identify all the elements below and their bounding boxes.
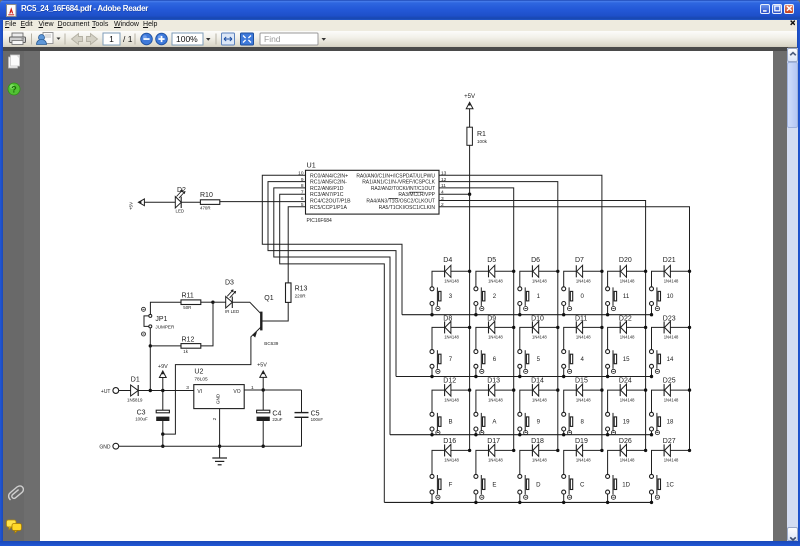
node switch 7/row junction: [430, 375, 433, 378]
wire matrix row 2 bus: [396, 376, 652, 378]
svg-text:1N4148: 1N4148: [532, 397, 547, 402]
diode D21 1N4148: [663, 257, 679, 283]
wire D6 cathode to switch: [520, 271, 533, 287]
svg-text:100k: 100k: [477, 139, 488, 144]
wire switch 11 to row bus: [607, 306, 609, 315]
wire node to D1 node (down): [149, 346, 151, 390]
switch S15 (key 15): [606, 350, 630, 374]
svg-text:4: 4: [581, 356, 585, 363]
node switch A/row junction: [474, 433, 477, 436]
node switch E/row junction: [474, 501, 477, 504]
wire R11 to D3 node: [201, 301, 213, 303]
wire C3 node to GND rail: [162, 434, 164, 446]
wire switch 15 to row bus: [607, 368, 609, 376]
node C3/emitter/GND: [161, 432, 164, 435]
svg-text:+UT: +UT: [101, 389, 111, 395]
wire D5 anode to column: [495, 270, 514, 272]
switch SF (key F): [430, 474, 453, 499]
node switch C/row junction: [562, 501, 565, 504]
wire D16 anode to column: [451, 449, 470, 451]
svg-text:IR LED: IR LED: [225, 309, 239, 314]
svg-text:BC639: BC639: [264, 341, 278, 346]
diode D15 1N4148: [575, 377, 591, 402]
wire switch 0 to row bus: [563, 306, 565, 315]
toolbar: [3, 31, 797, 47]
wire D11 cathode to switch: [564, 327, 577, 349]
svg-text:+9V: +9V: [158, 364, 168, 370]
fit width icon: [222, 33, 235, 45]
svg-text:+5V: +5V: [464, 93, 476, 100]
switch SB (key B): [430, 412, 453, 434]
wire D20 cathode to switch: [608, 271, 621, 287]
wire D9 cathode to switch: [476, 327, 489, 349]
switch S7 (key 7): [430, 350, 453, 374]
node D17/column junction: [512, 449, 515, 452]
wire switch 6 to row bus: [475, 368, 477, 376]
node GND rail/C3: [161, 445, 164, 448]
switch S1 (key 1): [518, 287, 541, 311]
svg-text:F: F: [449, 481, 453, 488]
switch S5 (key 5): [518, 350, 541, 374]
U1 right pin numbers: [441, 171, 447, 209]
svg-text:Find: Find: [264, 34, 281, 44]
wire +5V to R1: [469, 109, 471, 127]
svg-text:9: 9: [537, 418, 541, 425]
svg-text:15: 15: [623, 356, 630, 363]
svg-text:D13: D13: [487, 377, 500, 384]
wire U1 pin 11 to column 2: [439, 188, 514, 451]
page number box: [103, 33, 120, 45]
svg-text:1N4148: 1N4148: [576, 335, 591, 340]
node switch 1/row junction: [518, 313, 521, 316]
wire D24 cathode to switch: [608, 390, 621, 412]
diode D13 1N4148: [487, 377, 503, 402]
diode D24 1N4148: [619, 377, 635, 402]
svg-text:100nF: 100nF: [311, 417, 324, 422]
svg-text:470R: 470R: [200, 205, 211, 210]
diode D17 1N4148: [487, 438, 503, 463]
svg-text:220R: 220R: [295, 294, 307, 299]
svg-text:50R: 50R: [183, 305, 191, 310]
svg-text:11: 11: [623, 293, 630, 300]
node switch 3/row junction: [430, 313, 433, 316]
node switch 19/row junction: [606, 433, 609, 436]
node D24/column junction: [644, 388, 647, 391]
svg-text:D27: D27: [663, 438, 676, 445]
svg-text:1N4148: 1N4148: [620, 335, 635, 340]
diode D20 1N4148: [619, 257, 635, 283]
svg-text:D6: D6: [531, 257, 540, 264]
share/collaborate icon: [37, 33, 61, 45]
svg-text:1N4148: 1N4148: [444, 397, 459, 402]
node C4/GND rail: [262, 445, 265, 448]
wire +5V to D2: [144, 201, 175, 203]
svg-text:B: B: [448, 418, 452, 425]
svg-text:7: 7: [449, 356, 453, 363]
switch S2 (key 2): [474, 287, 497, 311]
transistor Q1 BC639: [261, 295, 278, 346]
node switch B/row junction: [430, 433, 433, 436]
switch S10 (key 10): [650, 287, 674, 311]
svg-text:19: 19: [623, 418, 630, 425]
wire switch 2 to row bus: [475, 306, 477, 315]
wire D27 cathode to switch: [652, 450, 665, 474]
wire Q1 emitter: [163, 327, 261, 434]
node D27/column junction: [688, 449, 691, 452]
svg-text:1N4148: 1N4148: [576, 397, 591, 402]
node D20/column junction: [644, 270, 647, 273]
switch S6 (key 6): [474, 350, 497, 374]
node switch 1C/row junction: [650, 501, 653, 504]
wire R12 left: [150, 345, 181, 347]
diode D16 1N4148: [443, 438, 459, 463]
wire column 1 (from R1 node): [469, 194, 471, 450]
switch SA (key A): [474, 412, 497, 434]
wire matrix row 4 bus: [384, 501, 651, 503]
wire D10 cathode to switch: [520, 327, 533, 349]
node switch 9/row junction: [518, 433, 521, 436]
svg-text:/ 1: / 1: [123, 34, 133, 44]
resistor R13: [286, 283, 308, 303]
wire D15 anode to column: [583, 389, 602, 391]
op-amp U1 PIC16F684: [306, 161, 440, 225]
diode D6 1N4148: [531, 257, 547, 283]
node D5/column junction: [512, 270, 515, 273]
wire D1 to U2 VI: [138, 390, 194, 392]
svg-text:1N4148: 1N4148: [444, 279, 459, 284]
svg-text:1C: 1C: [666, 481, 674, 488]
printer icon: [10, 33, 26, 45]
diode D23 1N4148: [663, 316, 679, 340]
wire U1 pin 13 to column 4: [439, 175, 602, 450]
wire D15 cathode to switch: [564, 390, 577, 412]
node D25/column junction: [688, 388, 691, 391]
svg-text:1N4148: 1N4148: [488, 458, 503, 463]
node D6/column junction: [556, 270, 559, 273]
svg-text:1N4148: 1N4148: [488, 335, 503, 340]
node D4/column junction: [468, 270, 471, 273]
wire switch 9 to row bus: [519, 431, 521, 435]
wire D23 cathode to switch: [652, 327, 665, 349]
node R11/R12/D3: [211, 301, 214, 304]
diode D18 1N4148: [531, 438, 547, 463]
svg-text:RA0/AN0/C1IN+/ICSPDAT/ULPWU: RA0/AN0/C1IN+/ICSPDAT/ULPWU: [356, 173, 435, 179]
fullscreen icon: [241, 33, 254, 45]
svg-text:RC3/AN7/P1C: RC3/AN7/P1C: [310, 192, 344, 198]
wire switch F to row bus: [431, 494, 433, 502]
wire D8 anode to column: [451, 326, 470, 328]
node R12/JP1/D1: [149, 344, 152, 347]
node switch 11/row junction: [606, 313, 609, 316]
svg-text:RA5/T1CKI/OSC1/CLKIN: RA5/T1CKI/OSC1/CLKIN: [379, 205, 436, 211]
wire D13 anode to column: [495, 389, 514, 391]
svg-text:D17: D17: [487, 438, 500, 445]
node D10/column junction: [556, 326, 559, 329]
capacitor C4 22uF: [257, 390, 283, 446]
diode D27 1N4148: [663, 438, 679, 463]
svg-text:U1: U1: [307, 161, 316, 170]
switch S1D (key 1D): [606, 474, 631, 499]
switch S14 (key 14): [650, 350, 674, 374]
svg-text:D16: D16: [443, 438, 456, 445]
wire switch 18 to row bus: [651, 431, 653, 435]
node D14/column junction: [556, 388, 559, 391]
svg-text:RA3/MCLR/VPP: RA3/MCLR/VPP: [398, 192, 435, 198]
switch S0 (key 0): [562, 287, 585, 311]
svg-text:1N4148: 1N4148: [576, 279, 591, 284]
wire R12 to R11/D3 node: [201, 302, 213, 346]
node switch 2/row junction: [474, 313, 477, 316]
wire D11 anode to column: [583, 326, 602, 328]
node switch 4/row junction: [562, 375, 565, 378]
node D12/column junction: [468, 388, 471, 391]
node switch 14/row junction: [650, 375, 653, 378]
wire switch 3 to row bus: [431, 306, 433, 315]
node D9/column junction: [512, 326, 515, 329]
wire D10 anode to column: [539, 326, 558, 328]
node D1/JP1 branch: [149, 389, 152, 392]
wire D20 anode to column: [627, 270, 646, 272]
wire D18 anode to column: [539, 449, 558, 451]
wire D26 cathode to switch: [608, 450, 621, 474]
emitter arrow: [252, 332, 257, 338]
diode D22 1N4148: [619, 316, 635, 340]
svg-text:RA1/AN1/C1IN-/VREF/ICSPCLK: RA1/AN1/C1IN-/VREF/ICSPCLK: [362, 180, 435, 186]
wire D19 anode to column: [583, 449, 602, 451]
wire switch D to row bus: [519, 494, 521, 502]
svg-text:6: 6: [301, 196, 304, 202]
wire U1 pin 4 (MCLR) to column 1: [439, 193, 470, 195]
node VO/C4/+5V: [262, 388, 265, 391]
svg-text:2: 2: [493, 293, 497, 300]
wire Q1 base to R13: [263, 302, 289, 321]
pages icon: [9, 57, 18, 68]
document area: [3, 51, 24, 542]
power +5V (left, at D2): [128, 199, 144, 210]
node U2 GND/rail: [218, 445, 221, 448]
diode D19 1N4148: [575, 438, 591, 463]
wire D8 cathode to switch: [432, 327, 445, 349]
diode D1 1N5819: [127, 376, 143, 402]
LED D2: [175, 187, 186, 213]
node switch 18/row junction: [650, 433, 653, 436]
switch S3 (key 3): [430, 287, 453, 311]
svg-text:1N4148: 1N4148: [444, 335, 459, 340]
svg-text:D14: D14: [531, 377, 544, 384]
node D21/column junction: [688, 270, 691, 273]
svg-text:D26: D26: [619, 438, 632, 445]
wire D22 anode to column: [627, 326, 646, 328]
svg-text:VO: VO: [233, 389, 240, 395]
resistor R1: [467, 127, 488, 145]
menu bar: [3, 20, 797, 32]
svg-text:D15: D15: [575, 377, 588, 384]
switch S4 (key 4): [562, 350, 585, 374]
wire D21 anode to column: [670, 270, 689, 272]
svg-text:0: 0: [581, 293, 585, 300]
diode D14 1N4148: [531, 377, 547, 402]
title bar: [0, 0, 800, 20]
wire U1 pin 10 to matrix row 1: [262, 175, 402, 314]
switch S18 (key 18): [650, 412, 674, 434]
paperclip icon: [9, 486, 24, 500]
svg-text:78L05: 78L05: [194, 377, 208, 383]
wire D3 to Q1 collector: [232, 302, 260, 313]
svg-text:1N4148: 1N4148: [620, 458, 635, 463]
wire switch C to row bus: [563, 494, 565, 502]
svg-text:8: 8: [581, 418, 585, 425]
ground symbol: [212, 458, 227, 465]
svg-text:LED: LED: [176, 208, 185, 213]
svg-text:R13: R13: [295, 285, 308, 292]
wire D21 cathode to switch: [652, 271, 665, 287]
svg-text:R1: R1: [477, 131, 486, 138]
node D16/column junction: [468, 449, 471, 452]
switch SD (key D): [518, 474, 541, 499]
wire U2 VO to +5V node: [244, 389, 301, 391]
svg-text:1N4148: 1N4148: [664, 279, 679, 284]
svg-text:1N4148: 1N4148: [444, 458, 459, 463]
svg-text:1N4148: 1N4148: [488, 397, 503, 402]
wire switch 1 to row bus: [519, 306, 521, 315]
svg-text:100uF: 100uF: [135, 416, 148, 421]
zoom level box: [172, 33, 203, 45]
wire D6 anode to column: [539, 270, 558, 272]
svg-text:14: 14: [667, 356, 674, 363]
svg-text:D12: D12: [443, 377, 456, 384]
switch S9 (key 9): [518, 412, 541, 434]
svg-text:D24: D24: [619, 377, 632, 384]
wire D16 cathode to switch: [432, 450, 445, 474]
node D23/column junction: [688, 326, 691, 329]
diode D25 1N4148: [663, 377, 679, 402]
switch SC (key C): [562, 474, 585, 499]
svg-text:Q1: Q1: [264, 295, 273, 302]
svg-text:D20: D20: [619, 257, 632, 264]
wire U2 GND down: [219, 409, 221, 458]
node switch 1D/row junction: [606, 501, 609, 504]
wire D25 anode to column: [670, 389, 689, 391]
wire D9 anode to column: [495, 326, 514, 328]
wire switch 8 to row bus: [563, 431, 565, 435]
wire D17 cathode to switch: [476, 450, 489, 474]
wire D7 cathode to switch: [564, 271, 577, 287]
wire D19 cathode to switch: [564, 450, 577, 474]
node D15/column junction: [600, 388, 603, 391]
svg-text:A: A: [492, 418, 497, 425]
wire switch 1D to row bus: [607, 494, 609, 502]
svg-text:RC1/AN5/C2IN-: RC1/AN5/C2IN-: [310, 180, 347, 186]
svg-text:JP1: JP1: [155, 316, 167, 323]
zoom out button: [141, 33, 153, 45]
wire D2 to R10: [181, 201, 200, 203]
svg-text:1D: 1D: [622, 481, 630, 488]
switch S1C (key 1C): [650, 474, 675, 499]
svg-text:JUMPER: JUMPER: [155, 325, 175, 330]
wire D27 anode to column: [670, 449, 689, 451]
svg-text:D7: D7: [575, 257, 584, 264]
svg-text:+5V: +5V: [128, 201, 133, 210]
wire D5 cathode to switch: [476, 271, 489, 287]
regulator U2 78L05: [186, 368, 254, 420]
svg-text:1N4148: 1N4148: [488, 279, 503, 284]
wire D14 cathode to switch: [520, 390, 533, 412]
node D13/column junction: [512, 388, 515, 391]
svg-text:18: 18: [667, 418, 674, 425]
svg-text:D21: D21: [663, 257, 676, 264]
diode D7 1N4148: [575, 257, 591, 283]
wire switch 10 to row bus: [651, 306, 653, 315]
svg-text:D1: D1: [131, 376, 140, 383]
wire D26 anode to column: [627, 449, 646, 451]
svg-text:D25: D25: [663, 377, 676, 384]
svg-text:U2: U2: [194, 368, 203, 375]
wire GND rail: [119, 445, 302, 447]
wire JP1 bottom to R12 node: [149, 328, 151, 346]
node switch 15/row junction: [606, 375, 609, 378]
node switch 8/row junction: [562, 433, 565, 436]
svg-text:1N4148: 1N4148: [664, 458, 679, 463]
wire switch E to row bus: [475, 494, 477, 502]
switch S11 (key 11): [606, 287, 630, 311]
svg-text:RC5/CCP1/P1A: RC5/CCP1/P1A: [310, 205, 347, 211]
node MCLR/R1/col1 junction: [468, 193, 471, 196]
resistor R10: [200, 192, 220, 210]
power +5V (top, above R1): [464, 93, 476, 109]
svg-text:GND: GND: [216, 393, 221, 404]
LED D3 (IR): [225, 280, 239, 314]
wire D7 anode to column: [583, 270, 602, 272]
wire switch A to row bus: [475, 431, 477, 435]
node switch 5/row junction: [518, 375, 521, 378]
diode D9 1N4148: [487, 316, 503, 340]
jumper JP1: [142, 307, 175, 336]
zoom in button: [156, 33, 168, 45]
svg-text:2: 2: [212, 417, 218, 420]
node switch 10/row junction: [650, 313, 653, 316]
sidebar icons: [3, 48, 24, 541]
wire D12 cathode to switch: [432, 390, 445, 412]
svg-text:E: E: [492, 481, 496, 488]
wire matrix row 1 bus: [402, 314, 652, 316]
svg-text:D4: D4: [443, 257, 452, 264]
svg-text:5: 5: [537, 356, 541, 363]
resistor R12: [181, 336, 201, 354]
svg-text:1N4148: 1N4148: [620, 279, 635, 284]
svg-text:RC4/C2OUT/P1B: RC4/C2OUT/P1B: [310, 199, 351, 205]
back arrow (disabled): [72, 34, 83, 45]
svg-text:1N4148: 1N4148: [576, 458, 591, 463]
node switch D/row junction: [518, 501, 521, 504]
wire U1 pin 5 (RC5) to R13: [288, 207, 305, 283]
svg-text:1N4148: 1N4148: [664, 335, 679, 340]
svg-text:R12: R12: [182, 336, 195, 343]
svg-text:1: 1: [109, 34, 114, 44]
svg-text:1N4148: 1N4148: [532, 458, 547, 463]
switch S8 (key 8): [562, 412, 585, 434]
wire R11 top rail: [150, 302, 181, 315]
wire D12 anode to column: [451, 389, 470, 391]
switch S19 (key 19): [606, 412, 630, 434]
svg-text:D11: D11: [575, 316, 587, 323]
svg-text:C: C: [580, 481, 585, 488]
node D1/+9V/C3: [161, 389, 164, 392]
switch SE (key E): [474, 474, 497, 499]
power +5V (at U2 output): [257, 363, 267, 390]
wire switch 1C to row bus: [651, 494, 653, 502]
terminal +UT: [101, 388, 119, 395]
wire node to D3: [213, 301, 226, 303]
